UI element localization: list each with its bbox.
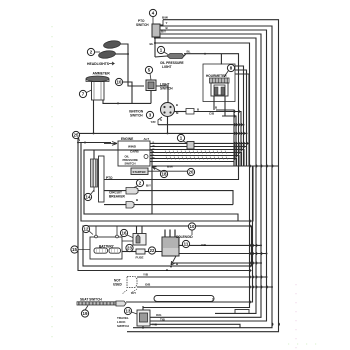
svg-text:23: 23 [127,246,132,251]
svg-text:WIND: WIND [128,145,137,149]
svg-text:B/Y: B/Y [161,30,166,34]
svg-text:10: 10 [117,80,122,85]
svg-text:SWITCH: SWITCH [117,324,129,328]
svg-text:SWITCH: SWITCH [136,23,149,27]
svg-text:SOLENOID: SOLENOID [176,235,193,239]
svg-text:O/G: O/G [156,313,162,317]
svg-text:22: 22 [150,248,155,253]
svg-text:16: 16 [122,231,127,236]
svg-text:13: 13 [126,309,131,314]
svg-text:CARB: CARB [130,150,139,154]
svg-text:STARTER: STARTER [133,170,146,174]
svg-text:Y: Y [166,21,168,25]
svg-text:20: 20 [189,170,194,175]
svg-text:SWITCH: SWITCH [130,114,143,118]
svg-text:B: B [153,141,155,145]
svg-text:15: 15 [72,247,77,252]
svg-text:12: 12 [84,227,89,232]
svg-text:19: 19 [83,311,88,316]
svg-text:SEAT SWITCH: SEAT SWITCH [80,298,102,302]
svg-text:FUSE: FUSE [136,256,144,260]
svg-text:14: 14 [86,195,91,200]
svg-text:AMMETER: AMMETER [93,72,111,76]
svg-text:HOURMETER: HOURMETER [206,74,227,78]
svg-text:O/Y: O/Y [131,291,136,295]
svg-text:Y/B: Y/B [143,273,149,277]
svg-text:USED: USED [113,283,123,287]
svg-text:T: T [212,298,214,302]
svg-text:Y/B: Y/B [152,322,158,326]
svg-text:B/Y: B/Y [146,184,151,188]
svg-text:ENGINE: ENGINE [121,137,133,141]
svg-text:BL: BL [153,156,157,160]
svg-text:Y/B: Y/B [201,243,207,247]
svg-text:Y/R: Y/R [151,120,157,124]
svg-text:B: B [176,103,178,107]
svg-text:B/W: B/W [162,16,168,20]
svg-text:LIGHT: LIGHT [162,65,172,69]
svg-text:BL: BL [187,50,191,54]
svg-text:10: 10 [190,224,195,229]
svg-text:HEADLIGHTS: HEADLIGHTS [87,62,110,66]
svg-text:BREAKER: BREAKER [109,195,125,199]
svg-text:SWITCH: SWITCH [160,87,173,91]
svg-text:ALT: ALT [144,137,150,141]
svg-text:25: 25 [74,133,79,138]
svg-text:C/B: C/B [209,112,215,116]
svg-text:SWITCH: SWITCH [125,162,136,166]
svg-text:T/B: T/B [160,318,166,322]
svg-text:BL: BL [150,42,154,46]
svg-text:O/B: O/B [145,283,151,287]
svg-text:11: 11 [184,242,189,247]
svg-text:18: 18 [162,172,167,177]
svg-text:B/W: B/W [167,165,173,169]
